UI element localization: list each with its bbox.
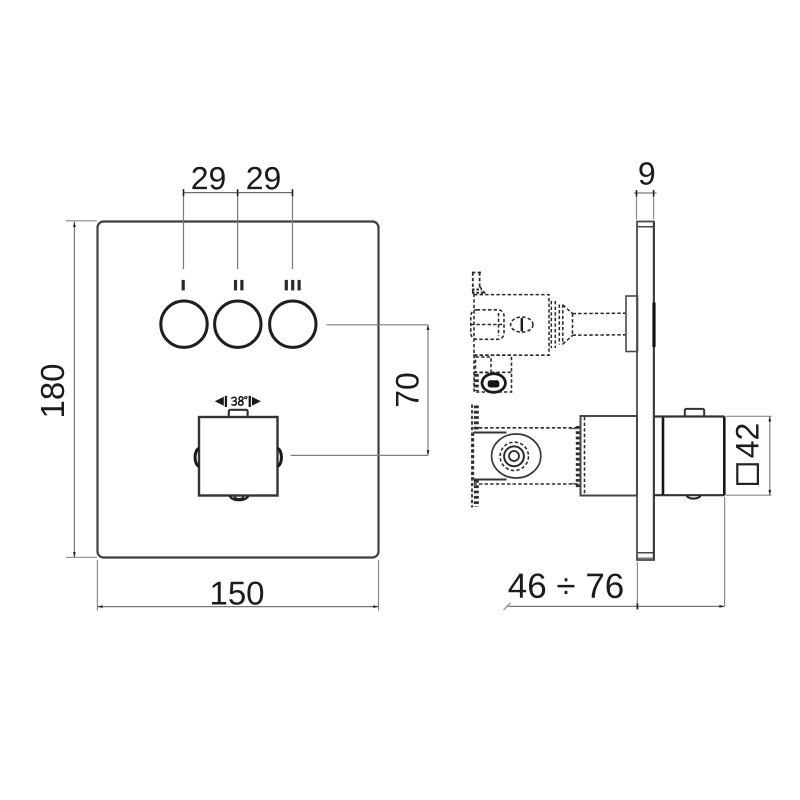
horizontal dashed bottom	[473, 483, 580, 485]
dim 29 ticks	[184, 189, 293, 196]
horizontal dashed top	[473, 427, 580, 429]
outer cap ellipse	[492, 434, 541, 478]
svg-text:29: 29	[246, 160, 282, 196]
cartridge body box	[474, 295, 549, 356]
serrations top	[474, 406, 479, 434]
mid circle	[504, 446, 524, 466]
side plate	[637, 222, 654, 561]
arrows 150	[97, 605, 102, 608]
svg-text:150: 150	[209, 574, 264, 611]
ext left	[96, 560, 98, 611]
label III	[285, 280, 301, 291]
body thread serration	[576, 426, 580, 489]
knob right bump	[278, 449, 282, 467]
label II	[234, 280, 244, 291]
label I	[182, 280, 185, 291]
dim line 9	[634, 192, 657, 194]
taper	[563, 305, 573, 314]
arrows 70	[427, 325, 430, 330]
knob bottom bump side	[687, 495, 701, 498]
svg-text:42: 42	[729, 423, 765, 459]
dim line	[507, 605, 725, 607]
knob back accent	[662, 418, 665, 495]
screw slot	[521, 318, 523, 331]
valve body rect	[581, 416, 638, 496]
ticks	[504, 603, 511, 610]
button I circle	[161, 301, 207, 347]
serrations bottom	[474, 480, 479, 507]
svg-text:180: 180	[34, 363, 71, 418]
ext bottom	[66, 556, 97, 558]
nut serrations	[550, 301, 552, 348]
leader from knob	[291, 454, 429, 456]
knob left bump	[195, 449, 199, 467]
small circle	[509, 451, 519, 461]
dim line 70	[427, 325, 429, 456]
stem	[573, 312, 626, 314]
38 deg rotation symbol	[215, 396, 261, 407]
ext right	[378, 560, 380, 611]
square symbol	[737, 464, 758, 484]
button II circle	[215, 301, 261, 347]
knob tab side	[685, 409, 704, 417]
solid box edges	[473, 432, 506, 434]
dashed vertical inside body	[584, 417, 586, 495]
union nut ellipse (bold)	[482, 374, 505, 393]
dim line 150	[97, 606, 378, 608]
left connector rounded box	[471, 310, 504, 340]
left edge of box dashed	[472, 433, 474, 480]
ext lines 9	[636, 193, 638, 220]
bracket vertical	[471, 405, 473, 508]
button III circle	[270, 301, 316, 347]
dim line 29	[184, 192, 293, 194]
knob top tab	[229, 410, 248, 417]
extension line btn I	[183, 193, 185, 269]
wall flange (solid)	[626, 296, 638, 352]
lower sub block	[474, 355, 512, 392]
body ticks	[570, 428, 579, 430]
svg-text:46 ÷ 76: 46 ÷ 76	[508, 567, 625, 606]
dim line 180	[73, 222, 75, 558]
ext top	[66, 220, 97, 222]
knob side view	[654, 415, 725, 417]
ext from plate	[636, 562, 638, 608]
front plate	[98, 222, 379, 558]
stem hole bar on plate	[652, 303, 655, 347]
knob front face	[723, 417, 726, 496]
ext from knob	[724, 497, 726, 606]
dashed circle	[500, 442, 528, 470]
svg-text:29: 29	[191, 160, 227, 196]
arrows 180	[73, 222, 76, 227]
knob bottom bump	[230, 496, 248, 501]
upper inlet stub	[472, 272, 474, 295]
leader from button III	[327, 324, 429, 326]
extension line btn II	[237, 193, 239, 269]
svg-text:70: 70	[390, 372, 426, 408]
svg-text:9: 9	[638, 155, 656, 191]
screw oval	[511, 317, 533, 332]
knob square	[199, 417, 278, 496]
extension line btn III	[292, 193, 294, 269]
